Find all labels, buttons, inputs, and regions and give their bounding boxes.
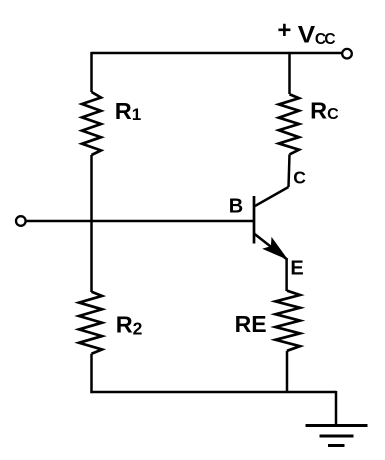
wire left vertical bottom (R2 to bottom rail): [90, 354, 93, 393]
svg-text:+: +: [277, 17, 291, 44]
terminal VCC (open circle): [342, 49, 352, 59]
svg-text:C: C: [293, 168, 306, 188]
wire ground stem: [335, 391, 338, 426]
svg-text:R1: R1: [115, 98, 141, 124]
wire emitter vertical (arrow to RE): [285, 258, 288, 291]
svg-text:CC: CC: [315, 31, 335, 48]
terminal input (open circle): [16, 216, 26, 226]
wire RE bottom (RE to bottom rail): [286, 351, 289, 392]
wire collector vertical (RC to collector bend): [289, 154, 290, 187]
resistor R2: [79, 292, 102, 354]
resistor R1: [82, 92, 101, 155]
transistor Q1 emitter diagonal with arrow: [254, 234, 287, 260]
svg-text:R2: R2: [116, 312, 143, 339]
wire right vertical top (rail to RC): [288, 52, 291, 94]
wire top rail: [92, 52, 343, 55]
ground symbol: [306, 426, 368, 446]
wire collector diagonal: [254, 187, 289, 207]
svg-text:RE: RE: [235, 311, 267, 337]
wire bottom rail: [90, 391, 336, 394]
svg-text:RC: RC: [310, 97, 339, 123]
wire left vertical top (rail to R1): [90, 52, 93, 92]
wire base (input to transistor base): [26, 220, 254, 223]
svg-text:B: B: [229, 195, 243, 217]
resistor RC: [279, 94, 299, 154]
wire left vertical middle (R1 to R2): [90, 155, 93, 292]
svg-text:E: E: [290, 257, 303, 279]
transistor Q1 base bar: [253, 196, 256, 244]
resistor RE: [276, 291, 301, 351]
svg-text:V: V: [298, 21, 315, 48]
label + VCC: [277, 17, 335, 48]
